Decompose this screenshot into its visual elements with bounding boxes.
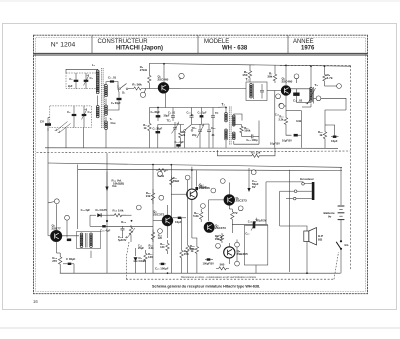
capacitor arrow C28	[248, 168, 250, 188]
AF supply bus wire	[48, 163, 342, 167]
svg-text:120: 120	[158, 236, 163, 240]
resistor R19b	[200, 209, 203, 222]
svg-text:C₆ .01: C₆ .01	[108, 76, 117, 80]
T2 tuning capacitor	[260, 91, 264, 92]
jack terminal 1	[302, 183, 305, 186]
wire R9 top	[324, 66, 326, 73]
wire Q1 to T2 primary	[169, 88, 180, 90]
svg-text:3.9k: 3.9k	[296, 119, 302, 123]
resistor R3 bias	[148, 70, 151, 89]
junction node r	[216, 243, 221, 248]
electrolytic C15b	[102, 225, 106, 227]
svg-text:C₁₃ 2µF: C₁₃ 2µF	[81, 208, 91, 212]
junction node m	[158, 229, 163, 234]
top page edge line	[0, 0, 400, 2]
ferrite antenna winding L1b	[96, 106, 99, 109]
svg-text:C₁₁ .02: C₁₁ .02	[293, 99, 303, 103]
svg-text:10µF/3V: 10µF/3V	[270, 142, 280, 146]
svg-text:T₂: T₂	[245, 78, 249, 82]
oscillator coil T1 winding b	[105, 105, 108, 108]
junction node s	[235, 242, 240, 247]
electrolytic C16b	[178, 217, 182, 219]
resistor R22b mid	[151, 230, 154, 243]
battery B1 cells	[338, 205, 345, 207]
header divider col2	[197, 36, 199, 54]
capacitor C6 coupling	[110, 80, 114, 82]
svg-text:5.6k: 5.6k	[193, 214, 199, 218]
wire C18 link	[328, 125, 335, 136]
junction node l4	[201, 204, 206, 209]
resistor R5	[179, 130, 182, 140]
junction node l	[185, 175, 190, 180]
svg-text:C₁₃ 2µF: C₁₃ 2µF	[175, 140, 185, 144]
jack wire 2	[280, 190, 294, 192]
resistor R15	[110, 214, 126, 217]
wire Q2 emitter	[285, 95, 287, 115]
resistor R18b	[151, 189, 154, 204]
coil T4 osc	[310, 88, 313, 91]
frame inner border	[36, 37, 366, 291]
wire R23b joins	[229, 208, 232, 210]
svg-text:8Ω: 8Ω	[318, 238, 323, 242]
junction dot bus x167	[167, 272, 169, 274]
transistor Q1 2SC460	[158, 83, 168, 93]
svg-text:2k: 2k	[182, 133, 186, 137]
svg-text:2SC460: 2SC460	[158, 77, 169, 81]
AF second rail wire	[78, 169, 342, 170]
volume pot P1 wire	[106, 172, 108, 187]
svg-text:39k: 39k	[267, 75, 272, 79]
mech link dashed	[127, 242, 130, 279]
wire node c stub	[296, 79, 298, 83]
svg-text:C₁₁ 1µF: C₁₁ 1µF	[198, 112, 207, 115]
capacitor C1	[74, 80, 79, 82]
svg-text:2SC373: 2SC373	[236, 199, 248, 203]
svg-text:16: 16	[33, 299, 38, 304]
wire AF rail x153	[152, 166, 154, 273]
header divider col1	[91, 36, 93, 54]
svg-text:Résistances en ohms - condensa: Résistances en ohms - condensateurs en p…	[181, 276, 257, 279]
svg-text:6V: 6V	[252, 185, 256, 189]
transistor Q2 2SC460	[281, 86, 290, 95]
svg-text:OA90: OA90	[139, 259, 147, 263]
wire box2 drop 2	[82, 128, 84, 148]
wire C24 drop	[196, 170, 198, 186]
wire output box drop	[255, 265, 257, 273]
junction node h	[54, 199, 59, 204]
wire AGC line	[217, 155, 248, 157]
svg-text:100µF/3V: 100µF/3V	[203, 262, 215, 266]
capacitor C12	[207, 130, 211, 131]
wire Q3 emitter down	[56, 241, 58, 253]
wire C22b down	[73, 264, 75, 273]
wire IF row top	[149, 107, 218, 109]
junction node l2	[158, 171, 163, 176]
junction dot AF rail1 x171	[170, 164, 172, 166]
resistor R23b	[231, 209, 234, 222]
wire out rail	[265, 182, 267, 224]
resistor R31	[220, 233, 223, 243]
wire output top rail	[232, 223, 267, 225]
wire T3 right top lead	[234, 114, 242, 121]
wire node b	[179, 77, 181, 80]
IF transformer T3 winding a1	[225, 113, 228, 116]
variable capacitor CV1	[45, 123, 51, 126]
wire L1a top lead	[66, 69, 98, 73]
resistor R17 det	[240, 125, 243, 135]
resistor R6	[248, 69, 251, 81]
T1 core	[104, 84, 106, 125]
wire right column	[325, 110, 346, 130]
svg-text:T₃: T₃	[221, 103, 225, 107]
svg-text:560: 560	[220, 263, 225, 267]
svg-text:2SB186: 2SB186	[199, 186, 211, 190]
header divider col3	[287, 36, 289, 54]
trimmer TC1	[173, 128, 177, 130]
wire speaker feed	[280, 226, 307, 231]
svg-text:C₁₂: C₁₂	[211, 126, 216, 130]
junction node t	[235, 261, 240, 266]
wire T2 sec to Q2 base	[267, 90, 281, 92]
resistor R4b	[148, 121, 151, 134]
svg-text:C₁₃ 100p: C₁₃ 100p	[246, 138, 258, 142]
svg-text:2.7k: 2.7k	[327, 76, 333, 80]
wire T3 bottom	[225, 141, 227, 148]
svg-text:150: 150	[242, 73, 247, 77]
volume pot P2 with arrow	[129, 225, 132, 237]
lower page separation line	[0, 327, 400, 329]
svg-text:T₄: T₄	[315, 83, 319, 87]
RF ground bus wire	[45, 147, 338, 150]
IF transformer T3 winding b1	[233, 115, 236, 118]
driver transformer T5 box	[77, 232, 101, 249]
transistor Q6 2SC373	[204, 222, 214, 232]
wire Q2 emitter branch	[286, 110, 301, 112]
resistor R9	[323, 73, 326, 84]
switch Int contact a	[340, 240, 342, 242]
svg-text:TC₂: TC₂	[191, 126, 197, 130]
junction node c	[294, 74, 299, 79]
wire x181 rail	[181, 218, 183, 247]
svg-text:20p: 20p	[192, 133, 197, 137]
capacitor C14b	[121, 229, 125, 230]
diode D1 detector	[90, 214, 96, 216]
resistor R16 AGC	[248, 154, 263, 157]
svg-text:Vol.: Vol.	[112, 184, 117, 188]
svg-text:D₁ OA70: D₁ OA70	[96, 208, 108, 212]
wire det out line	[126, 214, 132, 216]
dashed box antenna lower	[50, 106, 92, 128]
svg-text:ANNEE: ANNEE	[293, 39, 314, 45]
electrolytic C19b	[67, 239, 71, 242]
wire Q7 base	[209, 200, 224, 221]
transistor Q5 2SB186 open	[187, 189, 197, 199]
svg-text:Schéma général du récepteur mi: Schéma général du récepteur miniature Hi…	[152, 284, 260, 288]
capacitor C11	[293, 93, 299, 96]
junction node l3	[251, 170, 256, 175]
svg-text:C₂₁ 100µF: C₂₁ 100µF	[155, 267, 169, 271]
junction node k	[159, 195, 164, 200]
transistor Q7 2SC373	[224, 195, 234, 205]
volume pot P1 wiper arrow	[105, 187, 108, 192]
capacitor C13	[252, 134, 253, 138]
wire speaker down	[306, 242, 308, 274]
ferrite rod core	[101, 68, 103, 128]
svg-text:270: 270	[52, 259, 57, 263]
wire R7 top	[274, 65, 276, 72]
wire TC1/R5 bottoms	[174, 140, 176, 148]
junction node n	[220, 179, 225, 184]
junction dot volume rail	[106, 220, 108, 222]
wire Q7 collector up	[228, 183, 230, 195]
wire Q2 base rail	[274, 91, 276, 148]
svg-text:2SC373: 2SC373	[153, 212, 165, 216]
wire Q2 collector up	[285, 65, 287, 85]
bottom ground bus wire	[60, 272, 341, 274]
junction node o	[211, 188, 216, 193]
jack terminal 3	[293, 197, 296, 200]
dashed box antenna upper	[66, 73, 99, 89]
svg-text:Int.: Int.	[345, 243, 350, 247]
wire T5 out	[90, 251, 92, 258]
output loop box	[244, 225, 267, 265]
wire Q1 emitter down	[165, 92, 167, 107]
svg-text:30µF: 30µF	[164, 114, 170, 118]
switch Int blade	[336, 242, 341, 249]
svg-text:82k: 82k	[190, 247, 195, 251]
wire R10 to C17	[286, 127, 292, 136]
resistor R21 rail	[156, 169, 168, 172]
svg-text:R₁₅ 5.6k: R₁₅ 5.6k	[113, 209, 124, 213]
wire R19 bottom	[324, 141, 326, 148]
wire Q2 to T4 loop	[291, 88, 312, 90]
junction node p	[238, 206, 243, 211]
svg-text:5µF/3V: 5µF/3V	[118, 238, 127, 242]
T5 secondary winding	[90, 233, 93, 236]
oscillator coil T1 winding a	[105, 85, 108, 88]
jack plug bar	[312, 182, 315, 200]
IF transformer T2 box	[246, 82, 267, 101]
T4 core adjust arrow	[306, 88, 316, 104]
wire T1 bottom	[105, 130, 107, 148]
junction node f	[316, 96, 321, 101]
wire AF rail x171	[170, 166, 172, 273]
wire T4 top feed	[310, 66, 312, 87]
capacitor C8b	[171, 116, 175, 117]
junction node q	[217, 235, 222, 240]
svg-text:.01: .01	[190, 113, 194, 117]
junction node a	[140, 92, 145, 97]
CV gang arrow 1	[55, 122, 68, 131]
wire Q8 right rail	[236, 240, 238, 262]
wire node h stub	[48, 202, 54, 203]
svg-text:C 30µF: C 30µF	[66, 257, 76, 261]
junction dot row left	[157, 107, 159, 109]
switch S2	[185, 125, 192, 131]
svg-text:2SC460: 2SC460	[282, 79, 293, 83]
svg-text:CV: CV	[40, 120, 44, 124]
junction node d2	[276, 94, 281, 99]
wire node f path	[313, 97, 316, 99]
svg-text:.01: .01	[211, 133, 215, 137]
resistor R28	[180, 247, 183, 261]
resistor R19	[323, 130, 326, 142]
IF transformer T3 winding a2	[225, 129, 228, 132]
junction dot Q1 collector	[163, 63, 165, 65]
top dashed PCB edge wire	[280, 65, 351, 67]
junction dot R9 top	[324, 65, 326, 67]
junction node b	[179, 73, 184, 78]
transistor Q4 2SC373	[162, 215, 172, 225]
mid dashed separator wire	[37, 151, 351, 153]
svg-text:3.3k: 3.3k	[149, 246, 155, 250]
wire Q3 base	[48, 235, 51, 237]
svg-text:N° 1204: N° 1204	[51, 41, 76, 49]
resistor R27	[144, 250, 147, 264]
bottom dashed border wire	[126, 278, 334, 280]
svg-text:TC₁: TC₁	[166, 119, 171, 123]
svg-text:1k: 1k	[319, 133, 323, 137]
svg-text:10µF: 10µF	[331, 139, 338, 143]
wire box2 drop 1	[65, 128, 67, 148]
electrolytic C17	[294, 134, 298, 137]
wire switch to ground bus	[340, 250, 342, 273]
svg-text:25µF: 25µF	[138, 246, 144, 250]
electrolytic C8	[156, 115, 161, 117]
wire battery top	[340, 167, 342, 205]
header bottom double rule	[34, 53, 368, 55]
junction dot T4 feed	[310, 65, 312, 67]
trimmer capacitor C4	[82, 114, 87, 116]
wire pot link	[130, 237, 132, 242]
junction node g	[279, 104, 284, 109]
svg-text:100k: 100k	[244, 129, 251, 133]
svg-text:R₁₆ 12k: R₁₆ 12k	[251, 151, 261, 155]
capacitor C11b	[211, 116, 215, 117]
junction dot T3 row	[225, 107, 227, 109]
wire T1 top	[105, 82, 107, 85]
junction dot AF rail2 x192	[191, 169, 193, 171]
wire R6 top	[249, 65, 251, 69]
electrolytic C24b	[195, 187, 198, 190]
jack wire 3	[286, 198, 293, 200]
wire AGC drop	[216, 150, 218, 156]
wire R1 to Q1 base	[144, 88, 159, 90]
junction dot AF rail1 x153	[152, 164, 154, 166]
wire trim row	[192, 123, 209, 126]
wire jack col b	[289, 170, 291, 272]
wire L1a link	[97, 96, 99, 106]
svg-text:2.2k: 2.2k	[278, 117, 284, 121]
svg-text:56kΩ: 56kΩ	[173, 179, 179, 183]
T5 primary winding	[80, 233, 83, 236]
resistor R26 emitter	[59, 253, 62, 268]
electrolytic C11c	[200, 115, 204, 117]
junction node e	[337, 84, 342, 89]
wire Q4 base lead	[132, 225, 154, 227]
svg-text:Ecouteur: Ecouteur	[300, 177, 314, 181]
jack wire 1	[266, 182, 309, 184]
svg-text:MODELE: MODELE	[204, 39, 229, 45]
wire Q7 emitter down	[228, 205, 230, 209]
wire T5 leads	[77, 165, 79, 230]
resistor R23e	[166, 240, 169, 254]
electrolytic C22 coupling	[253, 221, 256, 228]
T5 core	[84, 233, 86, 248]
ferrite antenna winding L1a	[96, 70, 99, 73]
IF transformer T3 winding b2	[233, 132, 236, 135]
jack terminal 2	[294, 190, 297, 193]
svg-text:2SB405: 2SB405	[237, 252, 249, 256]
wire T1 mid tap	[105, 117, 107, 121]
wire T2 top lead	[249, 80, 251, 82]
wire jack col a	[279, 191, 281, 226]
T2 winding	[250, 84, 253, 87]
resistor R17b	[170, 176, 173, 188]
switch S1	[120, 84, 127, 89]
resistor R7	[273, 72, 276, 83]
svg-text:CONSTRUCTEUR: CONSTRUCTEUR	[98, 39, 149, 45]
svg-text:24k: 24k	[146, 194, 151, 198]
svg-text:27kΩ: 27kΩ	[140, 68, 148, 72]
capacitor C5	[117, 98, 122, 100]
wire T3 top lead	[225, 107, 227, 113]
svg-text:R₂₄: R₂₄	[121, 220, 126, 224]
wire mid row	[158, 124, 184, 126]
junction node i	[65, 215, 70, 220]
CV gang arrow 2	[58, 124, 71, 133]
wire Q5 leads	[191, 167, 193, 189]
svg-text:C₈ 30µF: C₈ 30µF	[151, 111, 161, 114]
junction node j	[136, 205, 141, 210]
junction dot det line	[131, 220, 133, 222]
speaker HP	[304, 231, 309, 242]
wire Q3 to T5	[62, 235, 80, 237]
wire x187 rail	[187, 180, 189, 242]
electrolytic C22b	[68, 263, 72, 265]
wire R3 top to bus	[148, 64, 150, 70]
electrolytic C21	[161, 263, 165, 265]
capacitor C9	[190, 116, 194, 117]
left vertical return wire	[47, 128, 49, 236]
wire box2 top to CV	[48, 117, 50, 119]
svg-text:150: 150	[215, 237, 220, 241]
B+ top bus wire	[149, 64, 351, 67]
wire AF rail x105	[106, 153, 108, 273]
junction node d	[279, 103, 284, 108]
svg-text:1k: 1k	[143, 126, 147, 130]
trimmer TC2	[198, 130, 202, 132]
diode D2	[135, 248, 137, 256]
svg-text:C₁₅ 4µF: C₁₅ 4µF	[100, 229, 111, 233]
wire Q3 collector up	[56, 204, 58, 231]
wire Q8 emitter	[228, 258, 230, 264]
svg-text:2SC373: 2SC373	[215, 226, 226, 230]
trimmer capacitor C2	[84, 80, 89, 82]
electrolytic C13c	[176, 144, 180, 146]
svg-text:9v: 9v	[328, 214, 332, 218]
svg-text:C₅ 30µF: C₅ 30µF	[111, 101, 121, 105]
svg-text:HITACHI (Japon): HITACHI (Japon)	[116, 46, 163, 52]
junction dot bus x307	[306, 272, 308, 274]
svg-text:10µF/3V: 10µF/3V	[282, 138, 292, 142]
oscillator coil T1 winding c	[105, 121, 108, 124]
wire osc coil bottom	[310, 104, 312, 108]
transistor Q8 2SB405 open	[224, 247, 235, 258]
wire det vertical left	[89, 215, 91, 226]
wire Q4 emitter	[167, 226, 169, 238]
capacitor C3	[72, 114, 77, 116]
